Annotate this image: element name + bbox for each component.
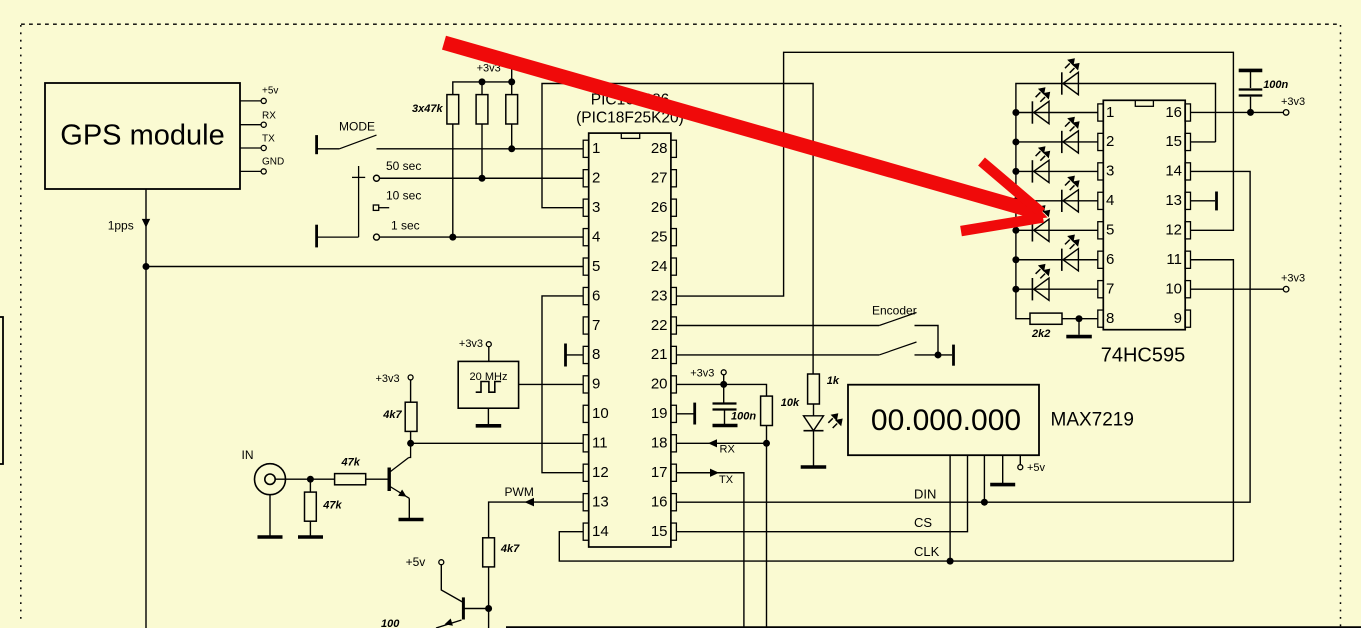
selector switch common: [317, 166, 366, 247]
LED D1: [1062, 58, 1080, 94]
encoder: [872, 304, 954, 366]
bottom page edge line: [506, 626, 1361, 628]
svg-text:13: 13: [592, 494, 609, 511]
svg-text:11: 11: [1166, 251, 1182, 268]
wire: Q2 base wire: [465, 608, 489, 610]
wire: PIC pin22 to encoder sw1: [676, 325, 879, 327]
svg-text:18: 18: [651, 435, 668, 452]
svg-text:MODE: MODE: [339, 119, 375, 133]
wire: 10k bottom to RX node: [766, 426, 768, 444]
svg-text:15: 15: [651, 523, 668, 540]
transistor Q1: [389, 443, 423, 519]
svg-text:10 sec: 10 sec: [386, 189, 421, 203]
RX arrow: [708, 439, 717, 447]
wire: encoder sw2 fixed to bar: [915, 354, 953, 356]
wire: 4k7 bottom to collector node: [410, 431, 412, 443]
wire: 2k2 row to 595 pin8: [1062, 318, 1098, 320]
LED D7: [1062, 235, 1080, 271]
resistor 47k vertical: [305, 492, 317, 521]
wire: IN down to ground: [269, 495, 271, 536]
svg-text:47k: 47k: [341, 457, 361, 469]
wire: 595 pin11 to CLK riser: [1191, 260, 1233, 561]
svg-text:15: 15: [1165, 133, 1182, 150]
LEDs matrix: [1032, 58, 1079, 300]
svg-text:16: 16: [651, 494, 668, 511]
wire: Q2 node down offpage: [488, 609, 490, 628]
svg-text:4: 4: [592, 228, 600, 245]
PIC chip body: [576, 92, 684, 548]
wire: 595 pin13 bar stub: [1191, 200, 1215, 202]
wire: PIC pin17 TX down offpage: [676, 473, 744, 628]
wire: PIC pin20 +3v3 to 10k: [676, 384, 766, 396]
svg-text:6: 6: [1106, 251, 1114, 268]
wire: 595 pin16 to +3v3: [1191, 111, 1284, 113]
svg-text:MAX7219: MAX7219: [1051, 410, 1134, 431]
wire: GPS 1pps down: [145, 189, 147, 628]
svg-text:4k7: 4k7: [500, 543, 520, 555]
resistor 4k7 upper: [405, 402, 417, 431]
wire: +5v to Q2 collector: [441, 565, 463, 603]
svg-text:10k: 10k: [781, 397, 800, 409]
LED D2: [1032, 87, 1050, 124]
PIC pin numbers: [592, 140, 609, 540]
wire: 50sec to PIC pin 2: [379, 177, 583, 179]
svg-text:8: 8: [592, 346, 600, 363]
display box: [848, 385, 1134, 456]
wire: PIC pin21 to encoder sw2: [676, 354, 879, 356]
svg-text:GPS module: GPS module: [60, 120, 224, 152]
svg-text:28: 28: [651, 140, 668, 157]
wire: LED bus left column: [1016, 84, 1216, 319]
svg-text:2: 2: [592, 170, 600, 187]
svg-text:22: 22: [651, 317, 668, 334]
svg-text:14: 14: [592, 523, 609, 540]
wire: display CLK pin: [949, 455, 951, 561]
svg-text:12: 12: [592, 464, 609, 481]
svg-text:27: 27: [651, 170, 668, 187]
terminal osc +3v3: [486, 342, 491, 347]
svg-text:13: 13: [1165, 192, 1182, 209]
svg-text:3: 3: [1106, 163, 1114, 180]
PIC pin19 T bar: [693, 403, 696, 425]
node: 1pps junction: [143, 263, 150, 270]
svg-text:1pps: 1pps: [108, 218, 134, 232]
svg-text:+3v3: +3v3: [1281, 96, 1305, 108]
wire: PIC pin13 PWM to 4k7: [489, 502, 584, 538]
resistor 4k7 lower: [483, 538, 495, 567]
svg-text:9: 9: [1174, 310, 1182, 327]
svg-text:7: 7: [592, 317, 600, 334]
wire: Q2 emitter offpage: [436, 620, 462, 628]
off-page connector stub left edge: [0, 317, 3, 464]
ground osc: [476, 424, 502, 428]
wire: 595 pin10 to +3v3: [1191, 288, 1284, 290]
LED D8: [1032, 264, 1050, 301]
capacitor 100n top right: [1239, 69, 1263, 73]
resistor array 3x47k: [447, 95, 518, 124]
svg-text:+5v: +5v: [406, 555, 426, 569]
svg-text:RX: RX: [262, 110, 276, 121]
switch MODE: [317, 119, 377, 154]
wire: display gnd stub: [1002, 455, 1004, 483]
wire: 100n top right stubs: [1250, 72, 1252, 88]
svg-text:CLK: CLK: [914, 544, 940, 559]
wire: CLK line pin14 PIC: [559, 532, 1233, 561]
PWM arrow: [525, 498, 535, 507]
svg-text:8: 8: [1106, 310, 1114, 327]
wire: LED row wires to 595 pins 1-7: [1016, 112, 1098, 114]
svg-text:+3v3: +3v3: [1281, 273, 1305, 285]
svg-text:RX: RX: [720, 444, 736, 456]
TX arrow: [710, 469, 719, 477]
wire: PIC pin8 bar stub: [566, 354, 584, 356]
wire: 100n cap stub top: [723, 384, 725, 402]
contact 50 sec: [374, 175, 380, 181]
junction dots display: [981, 499, 988, 506]
red arrow: [444, 43, 1048, 231]
1pps arrow: [142, 219, 150, 228]
resistor 2k2: [1030, 313, 1062, 324]
wire: 47k pulldown stubs: [309, 479, 311, 492]
transistor Q2: [406, 555, 493, 626]
svg-text:2: 2: [1106, 133, 1114, 150]
GPS pin stubs and terminals: [240, 98, 266, 174]
junction dots LED bus: [1012, 109, 1019, 293]
svg-text:14: 14: [1165, 163, 1182, 180]
svg-text:23: 23: [651, 287, 668, 304]
svg-text:DIN: DIN: [914, 487, 936, 502]
svg-text:Encoder: Encoder: [872, 304, 917, 318]
svg-text:IN: IN: [242, 448, 254, 462]
svg-text:+5v: +5v: [1027, 462, 1046, 474]
wire: PIC pin11 to Q1 collector node: [411, 442, 584, 444]
wire: 100n cap stub bottom: [724, 411, 726, 425]
wire: DIN line PIC pin16 to 595 pin14: [676, 171, 1250, 502]
svg-text:TX: TX: [719, 474, 734, 486]
svg-text:+3v3: +3v3: [459, 338, 483, 350]
svg-text:7: 7: [1106, 281, 1114, 298]
74HC595 chip body: [1101, 100, 1186, 366]
PIC pin8 T bar: [564, 344, 567, 367]
svg-text:3x47k: 3x47k: [412, 103, 443, 115]
svg-text:1k: 1k: [827, 375, 840, 387]
oscillator 20MHz box: [458, 361, 518, 408]
svg-text:100n: 100n: [1263, 79, 1288, 91]
svg-text:25: 25: [651, 228, 668, 245]
terminal +3v3 (595 pin16): [1283, 110, 1289, 116]
display +5v: [1018, 465, 1023, 470]
svg-text:GND: GND: [262, 157, 284, 168]
svg-text:100n: 100n: [731, 411, 756, 423]
wire: PIC pin19 bar stub: [676, 413, 694, 415]
wire: 1sec to PIC pin 4: [379, 236, 583, 238]
svg-text:+5v: +5v: [262, 85, 278, 96]
PIC pin boxes left: [583, 140, 589, 540]
svg-text:17: 17: [651, 464, 668, 481]
wire: encoder sw1 fixed contact L: [915, 326, 939, 355]
wire: pin20 +3v3 terminal stub: [723, 375, 725, 385]
terminal +3v3 top: [509, 64, 514, 69]
svg-text:CS: CS: [914, 515, 932, 530]
LED status (points down): [801, 413, 843, 467]
svg-text:11: 11: [592, 435, 608, 452]
svg-text:50 sec: 50 sec: [386, 159, 421, 173]
svg-text:1: 1: [1106, 104, 1114, 121]
svg-text:20: 20: [651, 376, 668, 393]
wire: 595 pin15 stub: [1191, 141, 1216, 143]
LED D6: [1032, 205, 1050, 241]
contact 10 sec: [373, 205, 378, 210]
capacitor 100n (PIC): [713, 404, 737, 410]
wire: resistor col2 to pin2 wire: [481, 124, 483, 178]
svg-text:6: 6: [592, 287, 600, 304]
svg-text:4k7: 4k7: [382, 409, 402, 421]
svg-text:16: 16: [1165, 104, 1182, 121]
wire: 47k to Q1 base: [366, 478, 390, 480]
595 pin boxes left: [1098, 104, 1104, 327]
LED D4: [1032, 146, 1050, 182]
LED D5: [1062, 176, 1080, 212]
LED D3: [1062, 117, 1080, 153]
wire: MODE switch to PIC pin 1: [377, 148, 584, 150]
svg-text:00.000.000: 00.000.000: [871, 404, 1021, 437]
wire: +3v3 bus over resistors: [453, 82, 512, 95]
svg-text:+3v3: +3v3: [690, 367, 714, 379]
wire: 2k2 gnd stub: [1078, 319, 1080, 335]
svg-text:10: 10: [1165, 281, 1182, 298]
wire: PIC pin6 to pin12 riser: [542, 296, 583, 473]
terminal +3v3 pin20: [721, 370, 726, 375]
contact 1 sec: [374, 234, 380, 240]
svg-text:5: 5: [592, 258, 600, 275]
wire: osc out to PIC pin9: [519, 383, 584, 385]
svg-text:21: 21: [651, 346, 668, 363]
wire: 4k7 top to +3v3: [410, 380, 412, 402]
svg-text:12: 12: [1165, 222, 1182, 239]
svg-text:26: 26: [651, 199, 668, 216]
svg-text:24: 24: [651, 258, 668, 275]
wire: PIC pin3 riser to status LED resistor: [542, 84, 813, 375]
resistor 10k: [761, 396, 773, 425]
595 pin13 T bar: [1215, 192, 1218, 211]
595 pin boxes right: [1185, 104, 1191, 327]
GPS module box: [45, 83, 240, 189]
wire: osc ground stub: [487, 408, 489, 424]
595 pin numbers: [1106, 104, 1114, 327]
wire: resistor col1 to pin4 wire: [452, 124, 454, 237]
svg-text:5: 5: [1106, 222, 1114, 239]
svg-text:74HC595: 74HC595: [1101, 345, 1186, 367]
svg-text:19: 19: [651, 405, 668, 422]
svg-text:10: 10: [592, 405, 609, 422]
wire: RX node down offpage: [766, 443, 768, 628]
IN connector: [255, 464, 286, 495]
resistor 47k horizontal: [335, 474, 366, 485]
svg-text:4: 4: [1106, 192, 1114, 209]
wire: 1pps node to PIC pin 5: [146, 266, 583, 268]
svg-text:9: 9: [592, 376, 600, 393]
svg-text:PWM: PWM: [505, 485, 534, 499]
svg-text:3: 3: [592, 199, 600, 216]
resistor 1k: [808, 374, 820, 404]
wire: IN to 47k: [275, 478, 334, 480]
svg-text:TX: TX: [262, 133, 275, 144]
wire: status LED vertical: [813, 404, 815, 416]
wire: CS line PIC pin15 to display: [676, 455, 967, 531]
wire: PIC pin23 riser to top: [676, 52, 1233, 296]
wire: display DIN pin: [983, 455, 985, 502]
svg-text:1 sec: 1 sec: [391, 219, 420, 233]
wire: 4k7 to Q2 base node: [488, 567, 490, 609]
svg-text:100: 100: [381, 618, 400, 628]
svg-text:+3v3: +3v3: [376, 373, 400, 385]
PIC pin boxes right: [671, 140, 677, 540]
wire: display +5v stub: [1019, 455, 1021, 465]
svg-text:47k: 47k: [322, 499, 342, 511]
wire: PIC pin18 RX: [676, 442, 766, 444]
wire: resistor col3 to pin1 wire: [511, 124, 513, 149]
svg-text:2k2: 2k2: [1031, 328, 1050, 340]
display gnd: [990, 483, 1015, 487]
svg-text:1: 1: [592, 140, 600, 157]
terminal +3v3 (595 pin10): [1283, 286, 1289, 292]
junction dots resistor bus: [479, 78, 486, 85]
wire: osc +3v3 stub: [488, 347, 490, 362]
